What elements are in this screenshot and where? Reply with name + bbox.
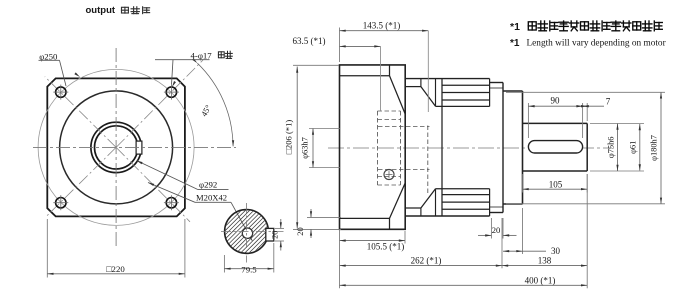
svg-text:output: output — [86, 5, 116, 16]
svg-text:□206 (*1): □206 (*1) — [284, 120, 294, 155]
svg-text:φ180h7: φ180h7 — [650, 135, 659, 161]
svg-text:M20X42: M20X42 — [196, 192, 227, 202]
note: 输出端 pseudo-glyphs — [122, 7, 129, 13]
svg-text:4-φ17: 4-φ17 — [191, 50, 213, 60]
svg-text:φ61: φ61 — [629, 141, 638, 154]
side view: hidden motor bolt holes (dashed) — [378, 110, 401, 112]
svg-text:φ292: φ292 — [199, 180, 217, 190]
dimension: phi63h7 — [309, 128, 340, 130]
dimension: square 206 (*1) — [293, 64, 339, 66]
dimension: 400 (*1) — [339, 229, 341, 288]
front view: bolt hole top-left — [56, 87, 66, 97]
dimension: phi180h7 — [506, 91, 665, 93]
dimension: 45 degree arc — [197, 63, 233, 146]
svg-text:138: 138 — [538, 255, 552, 265]
svg-text:105.5 (*1): 105.5 (*1) — [367, 242, 405, 252]
front view: diagonal centerlines — [45, 77, 116, 148]
front view: pilot boss circle phi180 — [60, 91, 173, 204]
dimension: 20 flange thickness — [490, 218, 492, 239]
dimension: 105 shaft length — [522, 174, 524, 193]
side view: pilot boss phi180 — [503, 90, 523, 92]
front view: shaft keyway notch — [136, 141, 142, 154]
front view: shaft outer circle — [91, 122, 141, 172]
dimension: 7 shaft end — [586, 103, 588, 121]
side view: housing front face — [441, 79, 443, 216]
front view: vertical centerline — [115, 48, 117, 246]
side view: hidden screw — [384, 170, 394, 180]
side view: horizontal centerline — [328, 147, 612, 149]
dimension: phi75h6 — [590, 123, 644, 125]
section view: key — [266, 228, 274, 241]
svg-text:20: 20 — [271, 231, 280, 239]
section view: shaft circle — [225, 210, 269, 254]
svg-text:143.5 (*1): 143.5 (*1) — [363, 20, 401, 30]
svg-text:φ63h7: φ63h7 — [301, 137, 310, 159]
svg-text:262 (*1): 262 (*1) — [411, 255, 442, 265]
dimension: 20 adapter base — [307, 216, 341, 218]
dimension: 143.5 (*1) — [339, 28, 341, 63]
dimension: 20 key width — [275, 227, 284, 229]
svg-text:30: 30 — [551, 246, 561, 256]
section view: center tapped hole — [242, 228, 252, 238]
svg-text:□220: □220 — [106, 264, 125, 274]
dimension: 105.5 (*1) — [404, 231, 406, 244]
side view: housing band bottom — [405, 215, 489, 217]
svg-text:Length will vary depending on: Length will vary depending on motor — [527, 39, 667, 49]
section view: centerlines — [221, 231, 285, 233]
side view: motor adapter plate — [340, 65, 406, 229]
svg-text:*1: *1 — [510, 21, 520, 33]
dimension: 63.5 (*1) — [340, 45, 381, 47]
svg-text:63.5 (*1): 63.5 (*1) — [293, 36, 326, 46]
dimension: 138 — [502, 265, 587, 267]
front view: bolt circle phi250 — [38, 69, 194, 225]
front view: bolt hole bottom-right — [166, 198, 176, 208]
dimension: 90 keyway length — [527, 103, 529, 138]
svg-text:90: 90 — [551, 96, 561, 106]
dimension: 262 (*1) — [501, 218, 503, 268]
side view: hidden input bore (dashed) — [378, 126, 430, 128]
svg-text:400 (*1): 400 (*1) — [525, 276, 556, 286]
front view: flange square outline — [47, 78, 185, 216]
svg-text:105: 105 — [549, 179, 563, 189]
dimension: 30 boss length — [522, 208, 524, 254]
note: Chinese remark pseudo-glyphs — [528, 22, 536, 30]
front view: horizontal centerline — [33, 146, 236, 148]
svg-text:*1: *1 — [510, 38, 520, 49]
front view: shaft bore circle — [95, 126, 138, 169]
dimension: phi61 — [639, 124, 641, 171]
side view: neck collar — [405, 86, 421, 88]
side view: output flange — [490, 82, 503, 84]
side view: output shaft — [523, 122, 588, 124]
side view: shaft keyway slot — [528, 141, 582, 153]
side view: housing band top — [405, 78, 489, 80]
svg-text:20: 20 — [492, 225, 501, 235]
front view: bolt hole bottom-left — [56, 198, 66, 208]
dimension: 79.5 — [223, 255, 225, 273]
svg-text:φ75h6: φ75h6 — [607, 137, 616, 159]
dimension: square 220 — [46, 219, 48, 278]
svg-text:20: 20 — [296, 227, 305, 235]
svg-text:45°: 45° — [200, 103, 214, 118]
svg-text:7: 7 — [606, 97, 611, 107]
svg-text:79.5: 79.5 — [241, 264, 257, 274]
front view: bolt hole top-right — [166, 87, 176, 97]
